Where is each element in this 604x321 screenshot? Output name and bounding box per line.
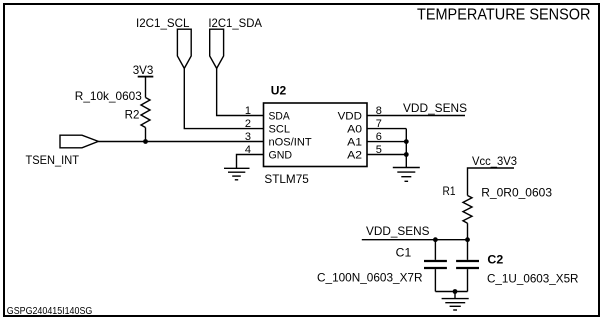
pin number 3 [245, 131, 251, 143]
svg-text:STLM75: STLM75 [264, 172, 309, 186]
pin number 4 [245, 144, 251, 156]
svg-text:VDD_SENS: VDD_SENS [366, 224, 430, 238]
svg-text:R2: R2 [125, 108, 140, 122]
svg-text:R1: R1 [443, 184, 456, 198]
svg-text:C1: C1 [396, 246, 412, 260]
wire I2C1_SDA to pin 1 [217, 68, 264, 115]
wire pin 4 GND to ground [237, 155, 264, 169]
net label Vcc_3V3 [472, 154, 517, 168]
svg-text:GND: GND [269, 150, 293, 162]
value label C_1U_0603_X5R [487, 271, 579, 285]
svg-text:A1: A1 [347, 137, 362, 149]
resistor R2 [141, 98, 150, 128]
ground bottom right [442, 299, 469, 310]
junction A1 [404, 139, 409, 144]
net label VDD_SENS (top) [403, 101, 467, 115]
svg-text:C_1U_0603_X5R: C_1U_0603_X5R [487, 271, 579, 285]
pin number 1 [245, 105, 251, 117]
power symbol 3V3 [133, 63, 154, 77]
pin label A2 [347, 150, 362, 162]
pin label GND [269, 150, 293, 162]
net label I2C1_SDA [208, 16, 262, 30]
wire R1 to VDD_SENS node [467, 223, 469, 240]
svg-text:VDD: VDD [338, 110, 362, 122]
wire C1/C2 bottoms to ground [435, 291, 467, 293]
designator R2 [125, 108, 140, 122]
pin number 6 [376, 131, 382, 143]
ground under A pins [393, 168, 420, 182]
resistor R1 [463, 196, 472, 224]
junction C1 top [433, 237, 438, 242]
wire I2C1_SCL to pin 2 [184, 68, 263, 128]
svg-text:A2: A2 [347, 150, 362, 162]
title TEMPERATURE SENSOR [417, 7, 591, 24]
svg-text:R_10k_0603: R_10k_0603 [75, 89, 142, 103]
value label C_100N_0603_X7R [317, 270, 423, 284]
svg-text:SCL: SCL [269, 124, 291, 136]
net label VDD_SENS (bottom) [366, 224, 430, 238]
op-amp U2 body (STLM75 IC box) [264, 103, 368, 167]
connector flag I2C1_SDA [210, 29, 224, 68]
wire pin 6 A1 [367, 141, 406, 143]
value label R_10k_0603 [75, 89, 142, 103]
designator C2 [487, 253, 503, 267]
svg-text:C_100N_0603_X7R: C_100N_0603_X7R [317, 270, 423, 284]
svg-text:R_0R0_0603: R_0R0_0603 [481, 186, 552, 200]
connector flag I2C1_SCL [177, 29, 191, 68]
capacitor C1 [424, 240, 447, 292]
wire VDD_SENS horizontal [362, 239, 468, 241]
svg-text:U2: U2 [271, 84, 287, 98]
ground under GND pin [224, 168, 250, 180]
svg-text:3: 3 [245, 131, 251, 143]
wire Vcc_3V3 to R1 [468, 168, 515, 196]
pin number 2 [245, 118, 251, 130]
wire stem to bottom ground [454, 292, 456, 299]
svg-text:GSPG240415I140SG: GSPG240415I140SG [7, 305, 93, 317]
svg-text:I2C1_SCL: I2C1_SCL [136, 16, 190, 30]
svg-text:SDA: SDA [269, 110, 291, 122]
pin label VDD [338, 110, 362, 122]
net label I2C1_SCL [136, 16, 190, 30]
wire A0/A1/A2 bus down to ground [405, 129, 407, 168]
net label TSEN_INT [26, 153, 80, 167]
connector flag TSEN_INT [60, 135, 98, 148]
svg-text:2: 2 [245, 118, 251, 130]
wire 3V3 to R2 [145, 77, 147, 98]
pin label SDA [269, 110, 291, 122]
wire R2 to TSEN_INT net [145, 128, 147, 142]
svg-text:I2C1_SDA: I2C1_SDA [208, 16, 262, 30]
pin number 5 [376, 144, 382, 156]
svg-text:TEMPERATURE SENSOR: TEMPERATURE SENSOR [417, 7, 591, 24]
wire pin 7 A0 [367, 128, 406, 130]
svg-text:Vcc_3V3: Vcc_3V3 [472, 154, 517, 168]
pin label A1 [347, 137, 362, 149]
svg-text:TSEN_INT: TSEN_INT [26, 153, 80, 167]
svg-text:VDD_SENS: VDD_SENS [403, 101, 467, 115]
pin number 8 [376, 105, 382, 117]
svg-text:nOS/INT: nOS/INT [269, 137, 312, 149]
wire pin 5 A2 [367, 154, 406, 156]
capacitor C2 [456, 240, 479, 292]
note GSPG240415I140SG [7, 305, 93, 317]
svg-text:C2: C2 [487, 253, 503, 267]
pin number 7 [376, 118, 382, 130]
svg-text:1: 1 [245, 105, 251, 117]
svg-text:3V3: 3V3 [133, 63, 154, 77]
wire pin 8 VDD to VDD_SENS [367, 115, 465, 117]
junction ground stem [453, 289, 458, 294]
wire TSEN_INT to pin 3 [98, 141, 263, 143]
junction TSEN_INT / R2 [143, 139, 148, 144]
pin label nOS/INT [269, 137, 312, 149]
designator R1 [443, 184, 456, 198]
svg-text:A0: A0 [347, 124, 362, 136]
pin label A0 [347, 124, 362, 136]
junction A2 [404, 152, 409, 157]
pin label SCL [269, 124, 291, 136]
junction R1/C2 top [465, 237, 470, 242]
part name STLM75 [264, 172, 309, 186]
designator C1 [396, 246, 412, 260]
value label R_0R0_0603 [481, 186, 552, 200]
designator U2 [271, 84, 287, 98]
